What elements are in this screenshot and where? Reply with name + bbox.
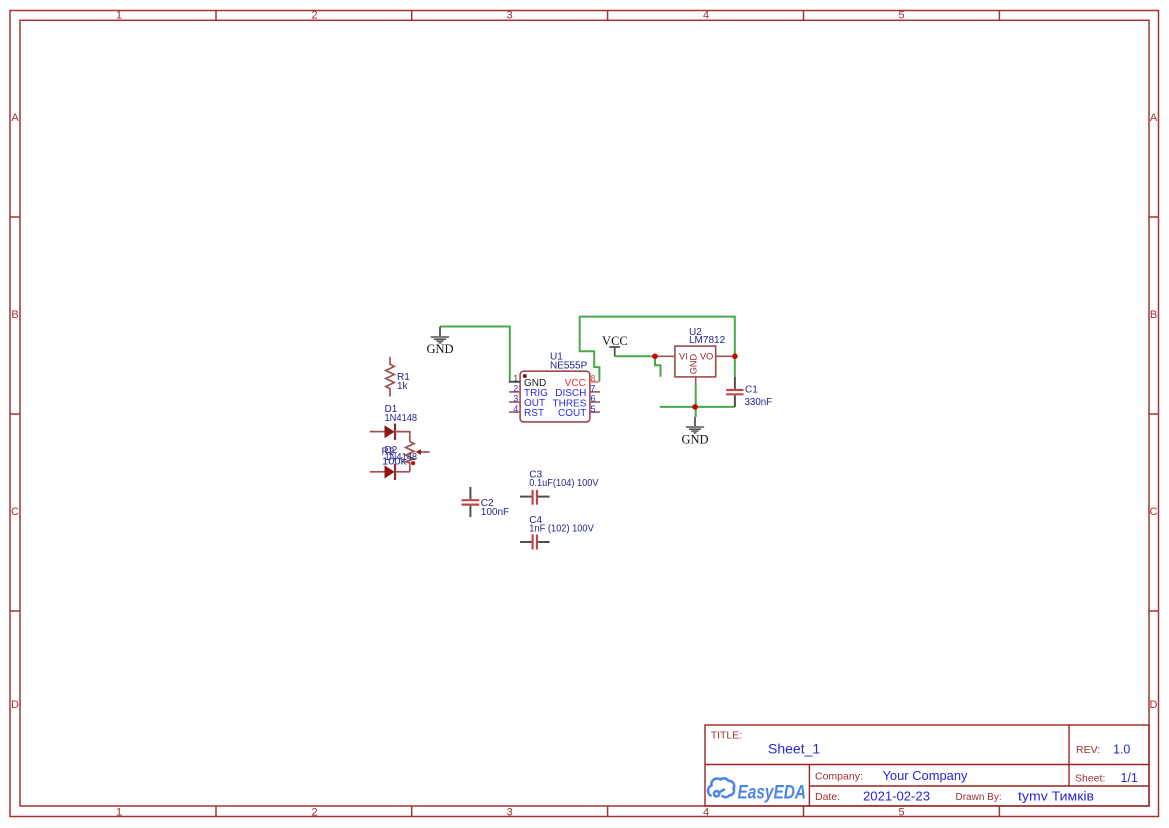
svg-text:1: 1 — [116, 806, 122, 818]
U1 pin 7 — [590, 391, 600, 393]
junction node VO — [732, 354, 738, 360]
svg-text:3: 3 — [513, 394, 518, 404]
svg-text:tymv Тимків: tymv Тимків — [1018, 790, 1094, 804]
svg-text:1k: 1k — [397, 381, 409, 392]
svg-text:LM7812: LM7812 — [689, 335, 726, 346]
svg-text:1N4148: 1N4148 — [385, 413, 418, 424]
svg-text:Date:: Date: — [815, 791, 840, 803]
ground flag GND1 — [431, 327, 450, 343]
svg-text:Company:: Company: — [815, 771, 863, 783]
wire U1 pin8 staircase to top rail and down to C1 — [580, 317, 735, 382]
junction node VI — [652, 354, 658, 360]
power flag VCC — [609, 347, 620, 356]
svg-text:4: 4 — [703, 806, 709, 818]
svg-text:2: 2 — [311, 806, 317, 818]
svg-text:C: C — [1150, 506, 1158, 518]
potentiometer R2 — [382, 442, 430, 472]
capacitor C1 — [726, 377, 772, 408]
svg-text:D: D — [1150, 699, 1158, 711]
wire dangling stub below VI junction — [655, 356, 661, 377]
capacitor C2 — [462, 487, 510, 518]
svg-text:C1: C1 — [745, 384, 758, 395]
svg-text:1.0: 1.0 — [1113, 743, 1130, 757]
svg-text:Sheet:: Sheet: — [1075, 773, 1105, 785]
svg-text:RST: RST — [524, 408, 544, 419]
svg-text:1/1: 1/1 — [1121, 771, 1138, 785]
svg-text:5: 5 — [898, 10, 904, 22]
svg-text:2: 2 — [311, 10, 317, 22]
svg-text:A: A — [11, 112, 19, 124]
diode D1 1N4148 — [370, 404, 418, 442]
svg-text:Drawn By:: Drawn By: — [956, 792, 1002, 803]
svg-text:VCC: VCC — [602, 334, 628, 348]
svg-text:NE555P: NE555P — [550, 361, 588, 372]
svg-text:REV:: REV: — [1076, 744, 1100, 756]
regulator U2 LM7812 body — [675, 346, 716, 377]
U2 pin VI — [655, 355, 675, 357]
svg-text:GND: GND — [426, 342, 453, 356]
svg-text:GND: GND — [689, 353, 699, 374]
svg-text:GND: GND — [681, 432, 708, 446]
op-amp U1 NE555P body — [520, 371, 590, 422]
svg-text:100nF: 100nF — [481, 507, 509, 518]
svg-text:VO: VO — [700, 352, 713, 362]
U1 pin 4 — [509, 411, 520, 413]
svg-text:330nF: 330nF — [745, 397, 773, 408]
EasyEDA logo — [708, 778, 734, 797]
wire bottom rail — [660, 406, 735, 408]
svg-text:Your Company: Your Company — [883, 769, 969, 783]
junction node R2/D2 — [411, 461, 415, 465]
U1 pin 1 — [509, 381, 520, 383]
U1 pin 3 — [509, 401, 520, 403]
ground flag GND2 — [686, 417, 704, 433]
U1 pin 8 — [590, 381, 600, 383]
svg-text:8: 8 — [591, 373, 596, 383]
svg-text:3: 3 — [507, 10, 513, 22]
svg-text:1: 1 — [513, 373, 518, 383]
svg-text:1nF (102) 100V: 1nF (102) 100V — [529, 524, 594, 535]
capacitor C4 — [520, 515, 594, 550]
U2 pin VO — [716, 355, 735, 357]
svg-text:A: A — [1150, 112, 1158, 124]
svg-text:TITLE:: TITLE: — [711, 729, 743, 741]
svg-text:C: C — [11, 506, 19, 518]
U1 pin 2 — [509, 391, 520, 393]
svg-text:Sheet_1: Sheet_1 — [768, 741, 820, 757]
wire VCC flag to VI junction — [615, 355, 655, 357]
U2 GND pin stub — [695, 377, 697, 385]
svg-text:B: B — [1150, 309, 1157, 321]
svg-text:B: B — [11, 309, 18, 321]
diode D2 1N4148 — [370, 445, 418, 480]
resistor R1 — [386, 357, 410, 397]
svg-text:5: 5 — [898, 806, 904, 818]
svg-text:4: 4 — [703, 10, 709, 22]
wire U2 GND pin down to GND2 flag — [695, 385, 697, 418]
U1 pin 5 — [590, 411, 600, 413]
capacitor C3 — [520, 470, 599, 505]
svg-text:4: 4 — [513, 404, 518, 414]
wire GND1 to U1 pin1 — [440, 327, 510, 382]
svg-text:2021-02-23: 2021-02-23 — [863, 789, 930, 803]
junction node bottom rail — [692, 404, 698, 410]
svg-text:2: 2 — [513, 384, 518, 394]
svg-text:EasyEDA: EasyEDA — [738, 782, 807, 803]
svg-text:3: 3 — [507, 806, 513, 818]
svg-text:VI: VI — [679, 352, 688, 362]
svg-text:5: 5 — [591, 404, 596, 414]
svg-text:7: 7 — [591, 384, 596, 394]
svg-text:COUT: COUT — [558, 408, 586, 419]
svg-text:1: 1 — [116, 10, 122, 22]
svg-text:6: 6 — [591, 394, 596, 404]
svg-text:D: D — [11, 699, 19, 711]
svg-text:0.1uF(104) 100V: 0.1uF(104) 100V — [529, 478, 599, 489]
U1 pin 6 — [590, 401, 600, 403]
title block borders — [705, 725, 1149, 806]
